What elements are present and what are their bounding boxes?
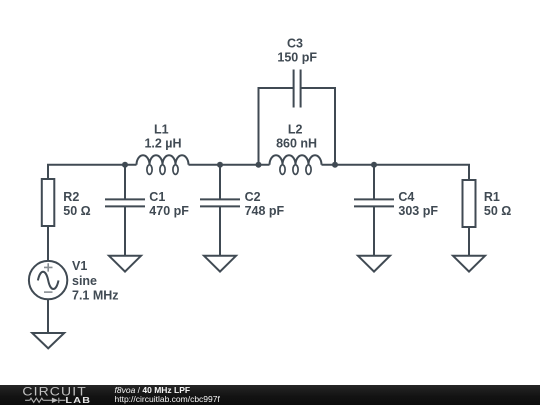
svg-text:R1: R1 [484,190,500,204]
svg-text:470 pF: 470 pF [149,204,189,218]
svg-text:860 nH: 860 nH [276,137,317,151]
svg-text:1.2 µH: 1.2 µH [144,137,181,151]
svg-text:C2: C2 [245,190,261,204]
svg-text:R2: R2 [63,190,79,204]
svg-text:50 Ω: 50 Ω [484,204,511,218]
svg-text:C3: C3 [287,36,303,50]
svg-text:303 pF: 303 pF [398,204,438,218]
svg-text:150 pF: 150 pF [277,50,317,64]
svg-text:C1: C1 [149,190,165,204]
svg-text:L1: L1 [154,122,169,136]
svg-text:V1: V1 [72,259,87,273]
svg-text:L2: L2 [288,122,303,136]
svg-text:C4: C4 [398,190,414,204]
svg-text:sine: sine [72,274,97,288]
svg-text:LAB: LAB [65,395,91,405]
svg-text:748 pF: 748 pF [245,204,285,218]
svg-text:50 Ω: 50 Ω [63,204,90,218]
svg-text:7.1 MHz: 7.1 MHz [72,289,119,303]
